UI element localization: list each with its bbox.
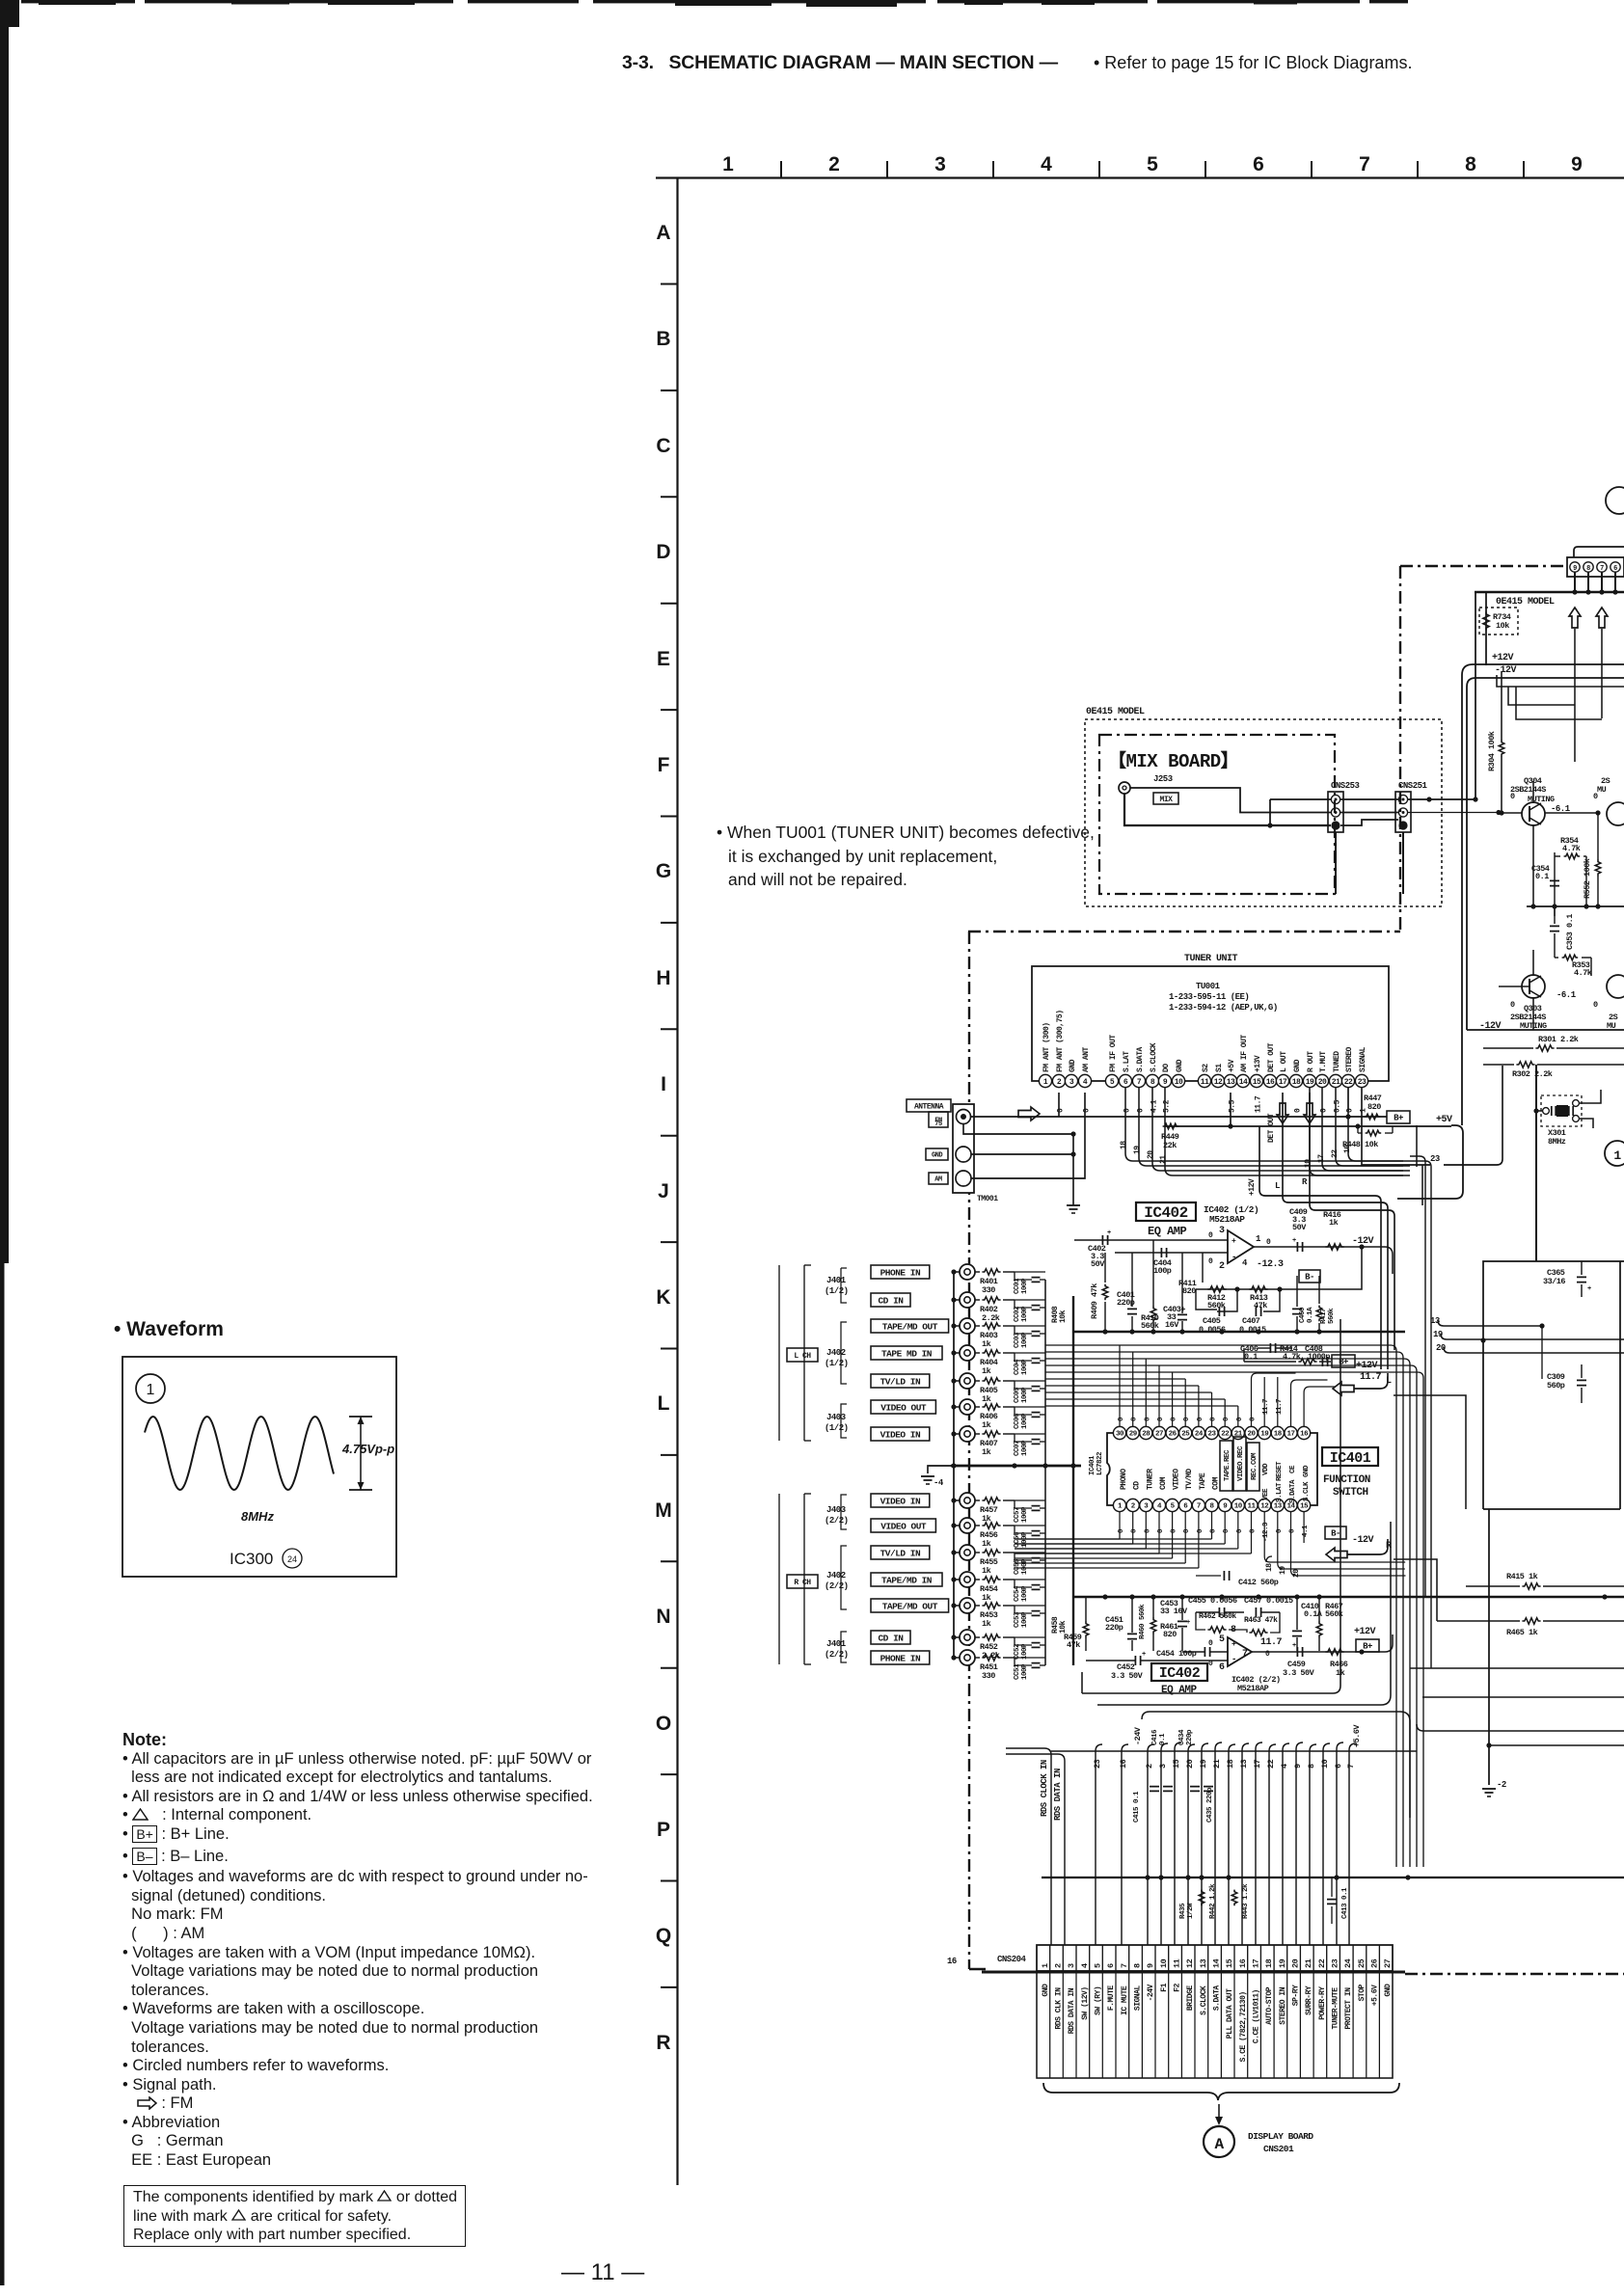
svg-text:0: 0 [1593,1000,1598,1010]
svg-text:VIDEO OUT: VIDEO OUT [880,1521,927,1531]
svg-text:0: 0 [1223,1528,1231,1533]
capacitor C459 3.3 50V [1297,1647,1302,1657]
svg-text:PHONE IN: PHONE IN [880,1653,921,1663]
display bus wire 18 [1229,1744,1235,1751]
svg-text:0: 0 [1510,1000,1515,1010]
svg-text:9: 9 [1146,1963,1155,1968]
R channel arrow out [1347,1539,1388,1554]
nested feed steps below rails [1497,675,1624,687]
svg-text:7: 7 [1120,1963,1129,1968]
svg-text:TAPE/MD OUT: TAPE/MD OUT [882,1601,938,1611]
svg-text:27: 27 [1383,1958,1393,1968]
svg-text:0: 0 [1210,1528,1218,1533]
svg-text:-6.1: -6.1 [1551,804,1571,814]
IC401 bottom weave to jacks [1119,1512,1121,1539]
svg-text:21: 21 [1304,1958,1313,1968]
svg-text:PHONO: PHONO [1120,1469,1128,1490]
svg-text:BRIDGE: BRIDGE [1186,1985,1195,2012]
svg-text:1: 1 [1613,1148,1621,1163]
wire mix board drop [1335,832,1337,894]
display bus wire 9 [1296,1742,1303,1749]
transistor Q3xx right upper (clipped) [1607,802,1624,825]
svg-text:11: 11 [1247,1503,1256,1511]
svg-text:-2: -2 [1497,1780,1506,1790]
svg-text:12: 12 [1260,1503,1269,1511]
svg-text:S.DATA: S.DATA [1213,1985,1222,2012]
svg-text:1k: 1k [982,1366,991,1376]
analog ground bus (thick) [1074,1331,1405,1334]
display bus wire 2 [1148,1744,1154,1751]
svg-text:22k: 22k [1163,1141,1177,1150]
svg-text:VDD: VDD [1262,1463,1270,1475]
svg-text:R460 560k: R460 560k [1139,1604,1147,1639]
svg-text:15: 15 [1253,1078,1261,1087]
svg-text:560p: 560p [1547,1381,1565,1391]
svg-text:STOP: STOP [1358,1984,1367,2001]
capacitor C404 100p [1161,1248,1166,1257]
fan rails to display bus [1081,1672,1083,1693]
svg-text:18: 18 [1274,1431,1283,1439]
svg-text:100p: 100p [1153,1266,1172,1276]
CNS204 pin number band [1037,1945,1393,1971]
svg-text:0: 0 [1144,1417,1151,1421]
waveform ref circle 1 (right edge) [1605,1141,1624,1166]
display bus wire 8 [1310,1744,1316,1751]
svg-text:0.1: 0.1 [1535,872,1549,881]
signal path up arrows [1569,608,1581,628]
svg-text:ANTENNA: ANTENNA [914,1102,944,1111]
svg-text:CNS204: CNS204 [997,1955,1027,1964]
R CH label [787,1575,818,1588]
tuner audio out wires L/R [1283,1093,1388,1369]
resistor R456 1k [975,1525,980,1526]
bus corner to right [1125,1153,1403,1161]
svg-text:+: + [1107,1229,1111,1237]
svg-text:TUNED: TUNED [1333,1051,1341,1072]
svg-text:0: 0 [1346,1108,1355,1113]
svg-text:0: 0 [1294,1108,1303,1113]
svg-text:0: 0 [1118,1417,1125,1421]
svg-text:-12V: -12V [1495,665,1517,676]
display bus wire 10 [1323,1743,1330,1750]
svg-text:8MHz: 8MHz [1548,1137,1566,1147]
svg-text:IC MUTE: IC MUTE [1121,1985,1129,2015]
svg-text:GND: GND [1303,1465,1311,1477]
shield wire [954,1636,960,1638]
svg-text:23: 23 [1430,1154,1440,1164]
svg-text:TU001: TU001 [1196,982,1221,991]
page header [622,52,1058,74]
svg-text:19: 19 [1279,1566,1287,1575]
bottom distribution line [1042,1877,1624,1878]
svg-text:560k: 560k [1328,1308,1336,1324]
horizontal runs right lower [1410,1667,1624,1669]
svg-text:CD IN: CD IN [878,1633,904,1643]
shield wire [954,1380,960,1382]
svg-text:0: 0 [1223,1417,1231,1421]
svg-text:D: D [656,541,670,563]
muting mid rail [1527,905,1624,907]
shield wire [954,1406,960,1408]
svg-text:10k: 10k [1059,1310,1068,1323]
svg-text:9: 9 [1573,565,1577,573]
svg-text:-12.3: -12.3 [1257,1259,1284,1270]
resistor R448 10k [1357,1126,1359,1133]
L shield bus [953,1272,955,1434]
svg-text:CD: CD [1133,1481,1142,1490]
VIDEO.REC boxed [1233,1437,1246,1491]
svg-text:0.1A: 0.1A [1307,1307,1314,1323]
svg-text:0: 0 [1236,1528,1244,1533]
svg-text:IC402: IC402 [1159,1665,1201,1682]
safety note box [123,2185,466,2247]
svg-text:C415 0.1: C415 0.1 [1133,1791,1141,1823]
svg-text:0.0015: 0.0015 [1239,1325,1266,1335]
svg-text:FM ANT (300,75): FM ANT (300,75) [1056,1010,1065,1072]
svg-text:0: 0 [1208,1231,1213,1240]
input label VIDEO OUT [871,1400,935,1414]
display bus wire 16 [1122,1744,1128,1751]
svg-text:+5.6V: +5.6V [1352,1724,1362,1747]
L signal into block [1394,1395,1466,1509]
svg-text:0: 0 [1266,1238,1271,1247]
svg-text:2SB2144S: 2SB2144S [1510,785,1546,795]
svg-text:SURR-RY: SURR-RY [1305,1985,1313,2015]
svg-text:21: 21 [1332,1078,1340,1087]
routing bundle L to IC401 [1045,1344,1391,1346]
vertical wire x1530 [1475,592,1476,799]
svg-text:and will not be repaired.: and will not be repaired. [728,870,907,889]
svg-text:19: 19 [1199,1759,1208,1769]
svg-text:J402: J402 [826,1571,846,1580]
tuner digital bus pins 6-9 down [1124,1088,1126,1153]
svg-text:5.5: 5.5 [1229,1099,1237,1113]
svg-text:7: 7 [1346,1764,1356,1769]
svg-text:24: 24 [1343,1958,1353,1968]
svg-text:MIX: MIX [1160,796,1174,804]
svg-text:23: 23 [1207,1431,1216,1439]
svg-text:O: O [656,1713,671,1735]
shield wire [954,1579,960,1580]
svg-text:-: - [1232,1253,1236,1262]
scan edge artifacts [0,0,9,1263]
svg-text:DET OUT: DET OUT [1267,1042,1276,1072]
signal bus vertical (thick) [1072,1296,1074,1466]
svg-text:AM ANT: AM ANT [1082,1046,1091,1072]
svg-text:21: 21 [1159,1155,1168,1164]
svg-text:0: 0 [1131,1417,1139,1421]
svg-text:S.CLK: S.CLK [1303,1481,1311,1501]
jack R455 [960,1545,975,1560]
svg-text:8: 8 [1465,153,1476,176]
svg-text:EQ AMP: EQ AMP [1161,1685,1198,1696]
svg-text:330: 330 [982,1285,995,1295]
svg-text:EQ AMP: EQ AMP [1148,1225,1187,1238]
svg-text:13: 13 [1227,1078,1235,1087]
svg-text:GND: GND [932,1152,942,1160]
signal path down arrows (L OUT / R OUT) [1277,1103,1288,1123]
board edge connector (top right) [1574,547,1624,557]
svg-text:(2/2): (2/2) [825,1516,849,1526]
op-amp input wires [1074,1239,1228,1241]
svg-text:REC.COM: REC.COM [1251,1452,1259,1480]
svg-text:6: 6 [1106,1963,1116,1968]
svg-text:1/2W: 1/2W [1187,1903,1195,1919]
svg-text:GND: GND [1042,1984,1050,1997]
svg-text:CC57: CC57 [1014,1507,1021,1523]
svg-text:2: 2 [1054,1963,1064,1968]
svg-text:0: 0 [1083,1108,1092,1113]
svg-text:1k: 1k [982,1447,991,1457]
svg-text:IC402: IC402 [1144,1204,1188,1222]
svg-text:L: L [1275,1181,1280,1191]
B- label (IC401) [1325,1526,1346,1539]
svg-text:CNS251: CNS251 [1398,781,1428,791]
svg-text:4: 4 [1083,1078,1088,1087]
transistor Q303 2SB2144S MUTING [1522,975,1545,998]
svg-text:DISPLAY BOARD: DISPLAY BOARD [1248,2131,1313,2142]
shield wire [954,1525,960,1526]
svg-text:1: 1 [1041,1963,1050,1968]
svg-text:AUTO-STOP: AUTO-STOP [1265,1986,1274,2024]
svg-text:PROTECT IN: PROTECT IN [1344,1987,1353,2030]
svg-text:22: 22 [1266,1759,1276,1769]
svg-text:8MHz: 8MHz [241,1509,274,1524]
svg-text:C416: C416 [1151,1729,1159,1745]
svg-text:• When TU001 (TUNER UNIT) beco: • When TU001 (TUNER UNIT) becomes defect… [717,823,1095,842]
svg-text:+: + [1232,1237,1236,1246]
input label VIDEO IN [871,1494,930,1507]
svg-text:F: F [658,754,670,776]
svg-text:RESET: RESET [1276,1461,1284,1481]
svg-text:FM ANT (300): FM ANT (300) [1042,1022,1051,1072]
svg-text:0: 0 [1123,1108,1132,1113]
svg-text:IC401: IC401 [1089,1455,1096,1475]
svg-text:0: 0 [1183,1417,1191,1421]
svg-text:L CH: L CH [794,1352,811,1361]
svg-text:COM: COM [1212,1476,1221,1490]
waveform ref circle 1 [136,1374,165,1403]
svg-text:J401: J401 [826,1276,847,1285]
display bus wire 4 [1283,1743,1289,1750]
svg-text:T.MUT: T.MUT [1319,1051,1328,1072]
svg-text:SP-RY: SP-RY [1292,1985,1301,2006]
svg-text:18: 18 [1292,1078,1301,1087]
resistor R449 22k [1163,1123,1179,1129]
svg-text:19: 19 [1278,1958,1287,1968]
svg-text:0: 0 [1118,1528,1125,1533]
svg-text:-: - [1232,1655,1236,1664]
svg-text:20: 20 [1185,1759,1195,1769]
ground -2 [1482,1788,1496,1790]
svg-text:4.7k: 4.7k [1562,844,1581,853]
svg-text:10: 10 [1320,1759,1330,1769]
svg-text:+: + [1232,1640,1236,1649]
svg-text:17: 17 [1252,1958,1261,1968]
svg-text:J: J [658,1180,669,1202]
svg-text:10: 10 [1159,1958,1169,1968]
svg-text:S.CE (7822,72130): S.CE (7822,72130) [1239,1991,1248,2062]
svg-text:5: 5 [1219,1634,1225,1645]
svg-text:R: R [656,2032,670,2054]
svg-text:75: 75 [934,1121,942,1128]
svg-text:11.7: 11.7 [1255,1095,1263,1113]
svg-text:0.1A: 0.1A [1304,1609,1323,1619]
svg-text:21: 21 [1212,1759,1222,1769]
svg-text:4: 4 [1041,153,1052,176]
B- label [1299,1270,1320,1283]
CNS204 signal name cells [1037,1971,1393,2078]
svg-text:16V: 16V [1165,1320,1179,1330]
svg-text:-6.1: -6.1 [1556,990,1577,1000]
svg-text:R417: R417 [1320,1309,1328,1324]
resistor R454 1k [975,1579,980,1580]
svg-text:26: 26 [1169,1431,1177,1439]
svg-text:C457 0.0015: C457 0.0015 [1244,1596,1293,1606]
resistor R416 1k [1325,1244,1343,1250]
svg-text:0E415 MODEL: 0E415 MODEL [1086,707,1145,717]
IC402 label box (2) [1151,1663,1207,1681]
svg-text:GND: GND [1069,1059,1077,1072]
svg-text:GND: GND [1384,1984,1393,1997]
svg-text:+: + [1292,1642,1296,1650]
svg-text:12: 12 [1214,1078,1223,1087]
resistor R457 1k [975,1499,980,1501]
svg-text:C413 0.1: C413 0.1 [1341,1887,1349,1919]
svg-text:16: 16 [947,1957,957,1966]
svg-text:29: 29 [1129,1431,1138,1439]
display bus wire 23 [1096,1744,1102,1751]
svg-text:4.1: 4.1 [1150,1099,1159,1113]
svg-text:RDS DATA IN: RDS DATA IN [1053,1769,1063,1821]
svg-text:330: 330 [982,1671,995,1681]
note heading and list [122,1731,595,2171]
svg-text:17: 17 [1279,1078,1287,1087]
svg-text:R435: R435 [1179,1903,1187,1919]
shield wire [954,1352,960,1354]
tuner unit box TU001 [1032,966,1389,1081]
svg-text:CNS253: CNS253 [1331,781,1360,791]
resistor R403 1k [975,1325,980,1327]
svg-text:R CH: R CH [794,1579,811,1587]
svg-text:-12V: -12V [1352,1236,1374,1247]
input label TV/LD IN [871,1546,930,1559]
svg-text:RDS CLOCK IN: RDS CLOCK IN [1040,1760,1049,1817]
op-amp U402b [1228,1637,1252,1666]
svg-text:18: 18 [1226,1759,1235,1769]
svg-text:IC401: IC401 [1330,1450,1371,1467]
svg-text:FM IF OUT: FM IF OUT [1109,1035,1118,1072]
svg-text:9: 9 [1163,1078,1168,1087]
svg-text:4: 4 [1280,1764,1289,1769]
shield wire [954,1552,960,1553]
R-ch EQ network top rail [1073,1596,1405,1599]
svg-text:50V: 50V [1091,1259,1105,1269]
resistor R453 1k [975,1605,980,1607]
svg-text:MU: MU [1597,785,1607,795]
svg-text:C454 100p: C454 100p [1156,1649,1197,1659]
svg-text:(1/2): (1/2) [825,1423,849,1433]
svg-text:R302 2.2k: R302 2.2k [1512,1069,1553,1079]
antenna trace to B+ [1073,1116,1387,1118]
resistor R452 2.2k [975,1636,980,1638]
svg-text:2: 2 [828,153,840,176]
svg-text:0: 0 [1137,1108,1146,1113]
svg-text:DO: DO [1162,1064,1171,1072]
input label PHONE IN [871,1265,930,1279]
svg-text:5: 5 [1094,1963,1103,1968]
svg-text:R448 10k: R448 10k [1342,1140,1378,1149]
svg-text:15: 15 [1225,1958,1234,1968]
svg-text:3: 3 [1219,1226,1225,1236]
svg-text:TV/MD: TV/MD [1185,1469,1194,1490]
ground (antenna) [1067,1204,1080,1206]
svg-text:AM IF OUT: AM IF OUT [1240,1035,1249,1072]
op-amp U402a [1228,1230,1254,1263]
R channel group bracket [803,1494,805,1664]
input label TV/LD IN [871,1374,930,1388]
svg-text:0E415 MODEL: 0E415 MODEL [1496,597,1555,608]
resistor R407 1k [975,1433,980,1435]
svg-text:11.7: 11.7 [1260,1637,1283,1648]
dash boundary bottom right [1405,1973,1624,1975]
svg-text:it is exchanged by unit replac: it is exchanged by unit replacement, [728,847,997,866]
svg-text:11.7: 11.7 [1262,1399,1270,1415]
svg-text:+: + [1587,1285,1591,1293]
svg-text:4.7k: 4.7k [1283,1352,1301,1362]
display bus wire 7 [1349,1743,1356,1750]
svg-text:6: 6 [1219,1662,1225,1673]
display bus wire 20 [1188,1744,1195,1751]
svg-text:3: 3 [1067,1963,1076,1968]
jack R405 [960,1373,975,1389]
svg-text:VIDEO IN: VIDEO IN [880,1496,921,1506]
svg-text:0: 0 [1320,1108,1329,1113]
svg-text:+5V: +5V [1436,1115,1452,1125]
svg-text:19: 19 [1306,1078,1314,1087]
svg-text:47k: 47k [1067,1640,1080,1650]
svg-text:VIDEO.REC: VIDEO.REC [1237,1445,1245,1481]
svg-text:-24V: -24V [1147,1984,1155,2001]
svg-text:LC7822: LC7822 [1096,1451,1104,1475]
svg-text:J253: J253 [1153,774,1173,784]
svg-text:14: 14 [1239,1078,1248,1087]
svg-text:M5218AP: M5218AP [1237,1684,1269,1693]
display bus wire 3 [1161,1743,1168,1750]
svg-text:6: 6 [1613,565,1617,573]
svg-text:Q: Q [656,1925,671,1947]
svg-text:L OUT: L OUT [1280,1051,1288,1072]
svg-text:1k: 1k [982,1619,991,1629]
pin 23 wire [1362,1088,1430,1165]
wire to ground -2 [1488,1509,1490,1785]
long verticals from rails [1461,675,1463,1125]
svg-text:3.3 50V: 3.3 50V [1111,1671,1144,1681]
mix board outer dotted box [1085,719,1442,906]
svg-text:1k: 1k [982,1394,991,1404]
svg-text:8: 8 [1586,565,1590,573]
svg-text:0: 0 [1197,1528,1204,1533]
input label TAPE MD IN [871,1346,942,1360]
svg-text:1k: 1k [1329,1218,1339,1228]
svg-text:+13V: +13V [1254,1055,1262,1072]
svg-text:J403: J403 [826,1413,846,1422]
svg-text:12: 12 [1185,1958,1195,1968]
R signal wire down [1394,1559,1437,1621]
svg-text:220p: 220p [1105,1623,1123,1633]
svg-text:R442 1.2k: R442 1.2k [1209,1883,1217,1919]
svg-text:16: 16 [1300,1431,1309,1439]
